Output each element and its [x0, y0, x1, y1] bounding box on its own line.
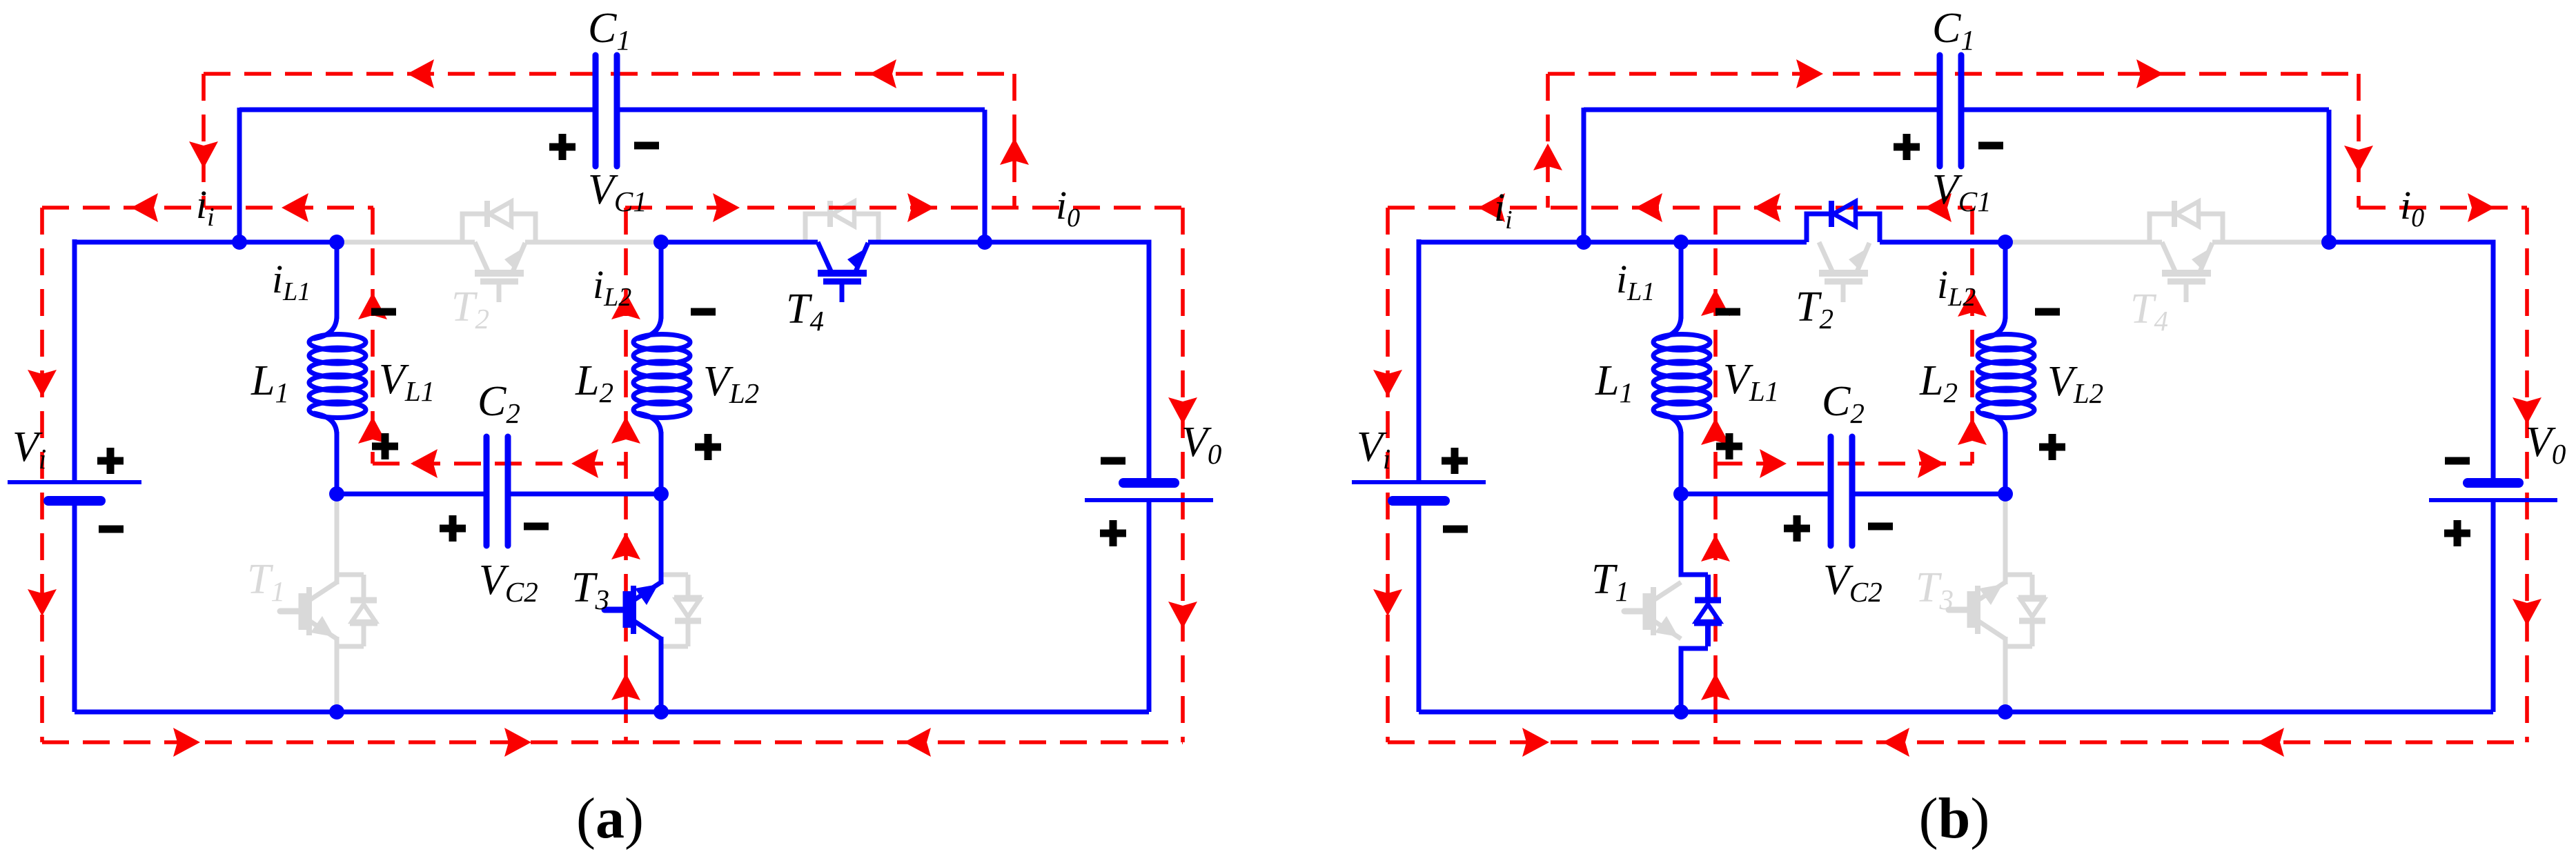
svg-text:(b): (b)	[1919, 786, 1990, 851]
svg-text:(a): (a)	[576, 786, 644, 851]
